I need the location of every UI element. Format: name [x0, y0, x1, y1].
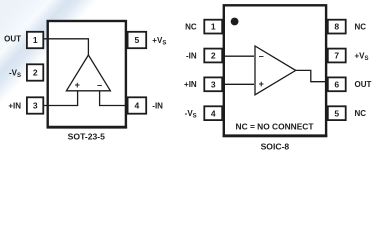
- pin 2 box: [27, 64, 43, 80]
- wire pin1 to op-amp output: [44, 39, 88, 55]
- svg-text:2: 2: [211, 51, 216, 61]
- wire pin4 to op-amp minus input: [100, 91, 126, 106]
- svg-text:OUT: OUT: [355, 80, 372, 89]
- svg-text:NC: NC: [355, 23, 367, 32]
- svg-text:5: 5: [135, 35, 140, 45]
- svg-text:–: –: [259, 51, 264, 61]
- svg-text:+IN: +IN: [8, 101, 21, 110]
- svg-text:1: 1: [211, 22, 216, 32]
- SOIC pin 6 box: [328, 77, 346, 91]
- pin 1 indicator dot: [231, 18, 239, 26]
- SOIC pin 1 box: [204, 20, 222, 34]
- pin 4 box: [128, 97, 147, 113]
- svg-text:NC: NC: [355, 109, 367, 118]
- wire op-amp output to pin 6: [296, 70, 326, 81]
- svg-text:+: +: [75, 80, 80, 90]
- svg-text:4: 4: [211, 108, 216, 118]
- wire pin3 to op-amp plus input: [44, 91, 78, 106]
- svg-text:-VS: -VS: [185, 109, 197, 120]
- svg-text:4: 4: [135, 101, 140, 111]
- svg-text:3: 3: [33, 101, 38, 111]
- SOT-23-5 body bottom edge (thick): [47, 126, 128, 129]
- svg-text:SOIC-8: SOIC-8: [261, 142, 290, 152]
- SOIC pin 3 box: [204, 77, 222, 91]
- pin 3 box: [27, 97, 43, 113]
- svg-text:2: 2: [33, 68, 38, 78]
- pin 5 box: [128, 32, 147, 48]
- pin 1 box: [27, 32, 43, 48]
- SOIC pin 5 box: [328, 106, 346, 120]
- svg-text:1: 1: [33, 35, 38, 45]
- svg-text:+VS: +VS: [152, 36, 166, 47]
- SOIC pin 2 box: [204, 49, 222, 63]
- svg-text:5: 5: [334, 108, 339, 118]
- SOIC-8 body bottom edge (thick): [223, 134, 328, 137]
- svg-text:+: +: [259, 79, 264, 89]
- op-amp A1 triangle: [66, 55, 110, 91]
- svg-text:–: –: [97, 80, 102, 90]
- svg-text:SOT-23-5: SOT-23-5: [68, 131, 105, 141]
- svg-text:+IN: +IN: [184, 80, 197, 89]
- svg-text:NC = NO CONNECT: NC = NO CONNECT: [236, 122, 315, 132]
- svg-text:-VS: -VS: [9, 68, 21, 79]
- svg-text:+VS: +VS: [355, 51, 369, 62]
- svg-text:NC: NC: [185, 23, 197, 32]
- SOIC pin 7 box: [328, 49, 346, 63]
- op-amp A2 triangle: [255, 46, 296, 95]
- SOIC-8 package body: [224, 5, 326, 136]
- SOIC pin 4 box: [204, 106, 222, 120]
- svg-text:-IN: -IN: [186, 51, 197, 60]
- background swoosh: [0, 0, 380, 154]
- svg-text:-IN: -IN: [152, 101, 163, 110]
- SOT-23-5 package body: [48, 21, 126, 127]
- svg-text:OUT: OUT: [4, 35, 21, 44]
- SOIC pin 8 box: [328, 20, 346, 34]
- svg-text:8: 8: [334, 22, 339, 32]
- wire pin2 to op-amp minus input: [225, 55, 254, 57]
- svg-text:3: 3: [211, 79, 216, 89]
- svg-text:7: 7: [334, 51, 339, 61]
- svg-text:6: 6: [334, 79, 339, 89]
- wire pin3 to op-amp plus input: [225, 83, 254, 85]
